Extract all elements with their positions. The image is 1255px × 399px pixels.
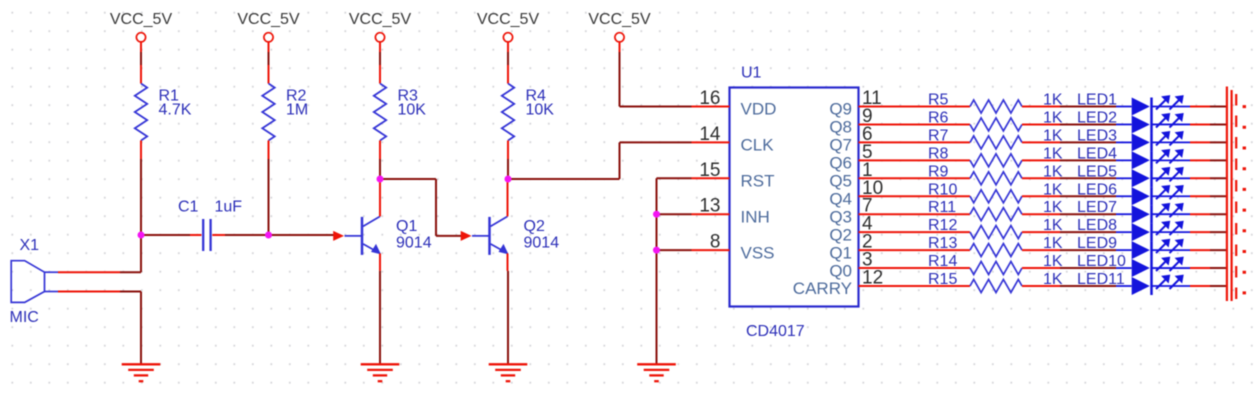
svg-text:U1: U1 (741, 65, 762, 82)
wire MIC top pin to node A (120, 271, 141, 273)
resistor R9 1K (928, 163, 1063, 185)
wire VCC to R4 (507, 52, 509, 65)
svg-text:CD4017: CD4017 (746, 323, 805, 340)
svg-text:Q1: Q1 (396, 218, 417, 235)
svg-text:VCC_5V: VCC_5V (477, 11, 540, 28)
wire LED9 cathode to bus (1152, 249, 1191, 251)
wire R9 to LED5 (1042, 177, 1060, 179)
junction node A (R1/MIC/C1) (138, 232, 145, 239)
svg-text:Q9: Q9 (829, 100, 852, 119)
pin 4 Q2 (829, 214, 896, 245)
svg-text:VSS: VSS (741, 243, 775, 262)
wire pin to resistor R7 (897, 141, 971, 143)
ground symbol at x=656.5 (637, 364, 676, 381)
svg-text:16: 16 (699, 88, 720, 109)
svg-text:Q5: Q5 (829, 172, 852, 191)
wire Q1 emitter to ground (379, 271, 381, 364)
wire pin to resistor R8 (897, 159, 971, 161)
op-amp U1 CD4017 body (730, 65, 859, 341)
resistor R4 10K (502, 65, 554, 159)
wire pin to resistor R13 (897, 249, 971, 251)
svg-text:Q2: Q2 (829, 225, 852, 244)
LED LED11 (1077, 271, 1183, 295)
svg-text:1M: 1M (286, 102, 308, 119)
signal arrow into Q2 base (461, 231, 472, 241)
svg-text:VCC_5V: VCC_5V (237, 11, 300, 28)
transistor Q1 9014 NPN (345, 181, 432, 271)
wire R13 to LED9 (1042, 249, 1060, 251)
pin 14 CLK (692, 124, 775, 155)
svg-text:13: 13 (699, 196, 720, 217)
pin 3 Q0 (829, 250, 896, 281)
wire pin to resistor R6 (897, 123, 971, 125)
svg-text:R10: R10 (928, 181, 957, 198)
junction node F (VSS tap) (653, 247, 660, 254)
LED LED8 (1077, 217, 1183, 241)
wire R15 to LED11 (1042, 285, 1060, 287)
svg-text:R14: R14 (928, 253, 957, 270)
ground symbol at x=380 (361, 364, 400, 381)
pin 7 Q3 (829, 196, 896, 227)
wire node A to C1 (141, 234, 190, 236)
LED LED9 (1077, 235, 1183, 259)
junction node D (R4/Q2 col) (505, 176, 512, 183)
pin 8 VSS (692, 232, 775, 263)
wire LED7 cathode to bus (1152, 213, 1191, 215)
svg-text:LED3: LED3 (1077, 127, 1117, 144)
wire R6 to LED2 (1042, 123, 1060, 125)
LED LED4 (1077, 145, 1183, 169)
svg-text:12: 12 (862, 268, 883, 289)
power symbol VCC_5V at x=141 (110, 11, 173, 52)
svg-text:Q7: Q7 (829, 136, 852, 155)
svg-text:MIC: MIC (10, 309, 39, 326)
wire pin to resistor R9 (897, 177, 971, 179)
wire pin to resistor R11 (897, 213, 971, 215)
wire pin to resistor R5 (897, 106, 971, 108)
LED LED6 (1077, 181, 1183, 205)
power symbol VCC_5V at x=619.5 (588, 11, 651, 52)
wire LED1 cathode to bus (1152, 106, 1191, 108)
svg-text:Q6: Q6 (829, 154, 852, 173)
svg-text:R15: R15 (928, 271, 957, 288)
junction node B (R2 tap) (265, 232, 272, 239)
pin 10 Q4 (829, 178, 896, 209)
power symbol VCC_5V at x=508 (477, 11, 540, 52)
svg-text:VCC_5V: VCC_5V (110, 11, 173, 28)
pin 15 RST (692, 160, 775, 191)
svg-text:LED6: LED6 (1077, 181, 1117, 198)
wire MIC bottom pin to ground (120, 291, 141, 293)
LED LED2 (1077, 109, 1183, 133)
signal arrow into Q1 base (333, 231, 344, 241)
pin 16 VDD (692, 88, 777, 119)
LED LED1 (1077, 92, 1183, 116)
wire LED4 cathode to bus (1152, 159, 1191, 161)
wire VCC to R2 (268, 52, 270, 65)
wire R12 to LED8 (1042, 231, 1060, 233)
wire pin to resistor R10 (897, 195, 971, 197)
wire LED8 cathode to bus (1152, 231, 1191, 233)
svg-text:4.7K: 4.7K (159, 102, 192, 119)
pin 12 CARRY (793, 268, 897, 299)
microphone X1 MIC (10, 237, 121, 326)
svg-text:CARRY: CARRY (793, 279, 852, 298)
svg-text:X1: X1 (20, 237, 40, 254)
wire RST/INH/VSS to ground (657, 177, 692, 179)
wire R11 to LED7 (1042, 213, 1060, 215)
wire R8 to LED4 (1042, 159, 1060, 161)
resistor R7 1K (928, 127, 1063, 149)
wire VCC to R1 (140, 52, 142, 65)
wire LED6 cathode to bus (1152, 195, 1191, 197)
resistor R5 1K (928, 92, 1063, 114)
resistor R15 1K (928, 271, 1063, 293)
svg-text:C1: C1 (178, 199, 199, 216)
svg-text:R11: R11 (928, 199, 956, 216)
svg-text:9014: 9014 (524, 234, 560, 251)
wire LED11 cathode to bus (1152, 285, 1191, 287)
svg-text:Q4: Q4 (829, 189, 852, 208)
svg-text:Q8: Q8 (829, 118, 852, 137)
svg-text:R13: R13 (928, 235, 957, 252)
ground symbol at x=141 (122, 364, 161, 381)
wire Q2 collector to CLK pin14 (508, 178, 620, 180)
cathode bus wire vertical 2 (1230, 90, 1232, 301)
svg-text:14: 14 (699, 124, 721, 145)
cathode bus wire vertical 1 (1226, 87, 1228, 302)
resistor R11 1K (928, 199, 1063, 221)
wire Q2 emitter to ground (507, 271, 509, 364)
transistor Q2 9014 NPN (472, 181, 559, 271)
svg-text:R8: R8 (928, 145, 949, 162)
svg-text:1uF: 1uF (215, 199, 243, 216)
svg-text:LED2: LED2 (1077, 109, 1117, 126)
resistor R6 1K (928, 109, 1063, 130)
LED LED10 (1077, 253, 1183, 277)
svg-text:INH: INH (741, 207, 770, 226)
resistor R1 4.7K (135, 65, 192, 159)
wire pin to resistor R12 (897, 231, 971, 233)
wire R2 to node B (268, 159, 270, 235)
pin 2 Q1 (829, 232, 896, 263)
wire VCC5 to VDD pin16 (619, 52, 621, 107)
wire R5 to LED1 (1042, 106, 1060, 108)
pin 1 Q5 (829, 160, 896, 191)
wire R4 to Q2 collector (507, 159, 509, 179)
power symbol VCC_5V at x=268.5 (237, 11, 300, 52)
svg-text:9014: 9014 (396, 234, 432, 251)
wire LED2 cathode to bus (1152, 123, 1191, 125)
svg-text:R5: R5 (928, 92, 949, 109)
wire pin to resistor R15 (897, 285, 971, 287)
svg-text:R12: R12 (928, 217, 957, 234)
svg-text:LED5: LED5 (1077, 163, 1117, 180)
LED LED3 (1077, 127, 1183, 151)
wire LED10 cathode to bus (1152, 267, 1191, 269)
svg-text:LED7: LED7 (1077, 199, 1117, 216)
svg-text:VDD: VDD (741, 100, 777, 119)
svg-text:LED9: LED9 (1077, 235, 1117, 252)
junction node E (INH tap) (653, 211, 660, 218)
svg-text:R7: R7 (928, 127, 949, 144)
wire R10 to LED6 (1042, 195, 1060, 197)
svg-text:15: 15 (699, 160, 720, 181)
wire LED5 cathode to bus (1152, 177, 1191, 179)
wire R14 to LED10 (1042, 267, 1060, 269)
wire R7 to LED3 (1042, 141, 1060, 143)
dotted bus wire (1243, 107, 1246, 293)
wire LED3 cathode to bus (1152, 141, 1191, 143)
LED LED7 (1077, 199, 1183, 223)
wire C1 to Q1 base (225, 234, 334, 236)
resistor R2 1M (262, 65, 308, 159)
resistor R12 1K (928, 217, 1063, 238)
resistor R8 1K (928, 145, 1063, 166)
svg-text:LED4: LED4 (1077, 145, 1117, 162)
svg-text:R6: R6 (928, 109, 949, 126)
svg-text:10K: 10K (398, 102, 427, 119)
pin 13 INH (692, 196, 770, 227)
resistor R3 10K (374, 65, 426, 159)
dashed bus wire (1235, 94, 1237, 301)
svg-text:Q3: Q3 (829, 207, 852, 226)
wire Q1 collector to Q2 base (380, 178, 436, 180)
pin 6 Q7 (829, 124, 896, 155)
svg-text:Q1: Q1 (829, 243, 852, 262)
pin 5 Q6 (829, 142, 896, 173)
svg-text:CLK: CLK (741, 136, 775, 155)
ground symbol at x=508 (489, 364, 528, 381)
power symbol VCC_5V at x=380 (349, 11, 412, 52)
capacitor C1 1uF (178, 199, 242, 252)
wire pin to resistor R14 (897, 267, 971, 269)
junction node C (R3/Q1 col) (377, 176, 384, 183)
resistor R10 1K (928, 181, 1063, 203)
wire VCC to R3 (379, 52, 381, 65)
svg-text:R9: R9 (928, 163, 949, 180)
wire R1 to node A (140, 159, 142, 235)
pin 9 Q8 (829, 106, 896, 137)
svg-text:8: 8 (710, 232, 721, 253)
resistor R13 1K (928, 235, 1063, 257)
resistor R14 1K (928, 253, 1063, 274)
svg-text:VCC_5V: VCC_5V (349, 11, 412, 28)
svg-text:Q2: Q2 (524, 218, 545, 235)
svg-text:LED1: LED1 (1077, 92, 1117, 109)
svg-text:VCC_5V: VCC_5V (588, 11, 651, 28)
svg-text:10K: 10K (526, 102, 555, 119)
svg-text:Q0: Q0 (829, 261, 852, 280)
wire R3 to Q1 collector (379, 159, 381, 179)
LED LED5 (1077, 163, 1183, 187)
pin 11 Q9 (829, 88, 896, 119)
svg-text:LED8: LED8 (1077, 217, 1117, 234)
svg-text:RST: RST (741, 172, 775, 191)
